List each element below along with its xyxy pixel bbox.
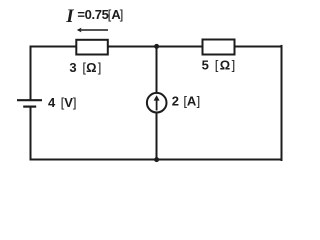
wire top <box>31 46 282 48</box>
wire left upper <box>30 46 32 101</box>
label =0.75[A] <box>77 7 123 22</box>
resistor R2 5ohm <box>203 40 235 55</box>
current source I1 <box>147 93 167 113</box>
wire bottom <box>31 159 282 161</box>
resistor R1 3ohm <box>76 40 108 55</box>
wire middle branch <box>156 47 158 160</box>
svg-text:5[Ω]: 5[Ω] <box>202 58 236 73</box>
svg-text:3[Ω]: 3[Ω] <box>69 60 101 75</box>
svg-text:2[A]: 2[A] <box>172 93 201 108</box>
node top junction <box>154 44 159 49</box>
node bottom junction <box>154 157 159 162</box>
label 5 ohm <box>202 58 236 73</box>
svg-text:4[V]: 4[V] <box>48 95 77 110</box>
label I symbol <box>65 6 74 27</box>
label 3 ohm <box>69 60 101 75</box>
wire left lower <box>30 107 32 161</box>
label 2 A <box>172 93 201 108</box>
current direction arrow <box>77 28 108 33</box>
svg-text:=0.75[A]: =0.75[A] <box>77 7 123 22</box>
wire right <box>281 45 283 161</box>
label 4 V <box>48 95 77 110</box>
svg-text:I: I <box>65 6 74 27</box>
battery V1 plate short <box>23 105 36 107</box>
battery V1 plate long <box>17 99 42 101</box>
